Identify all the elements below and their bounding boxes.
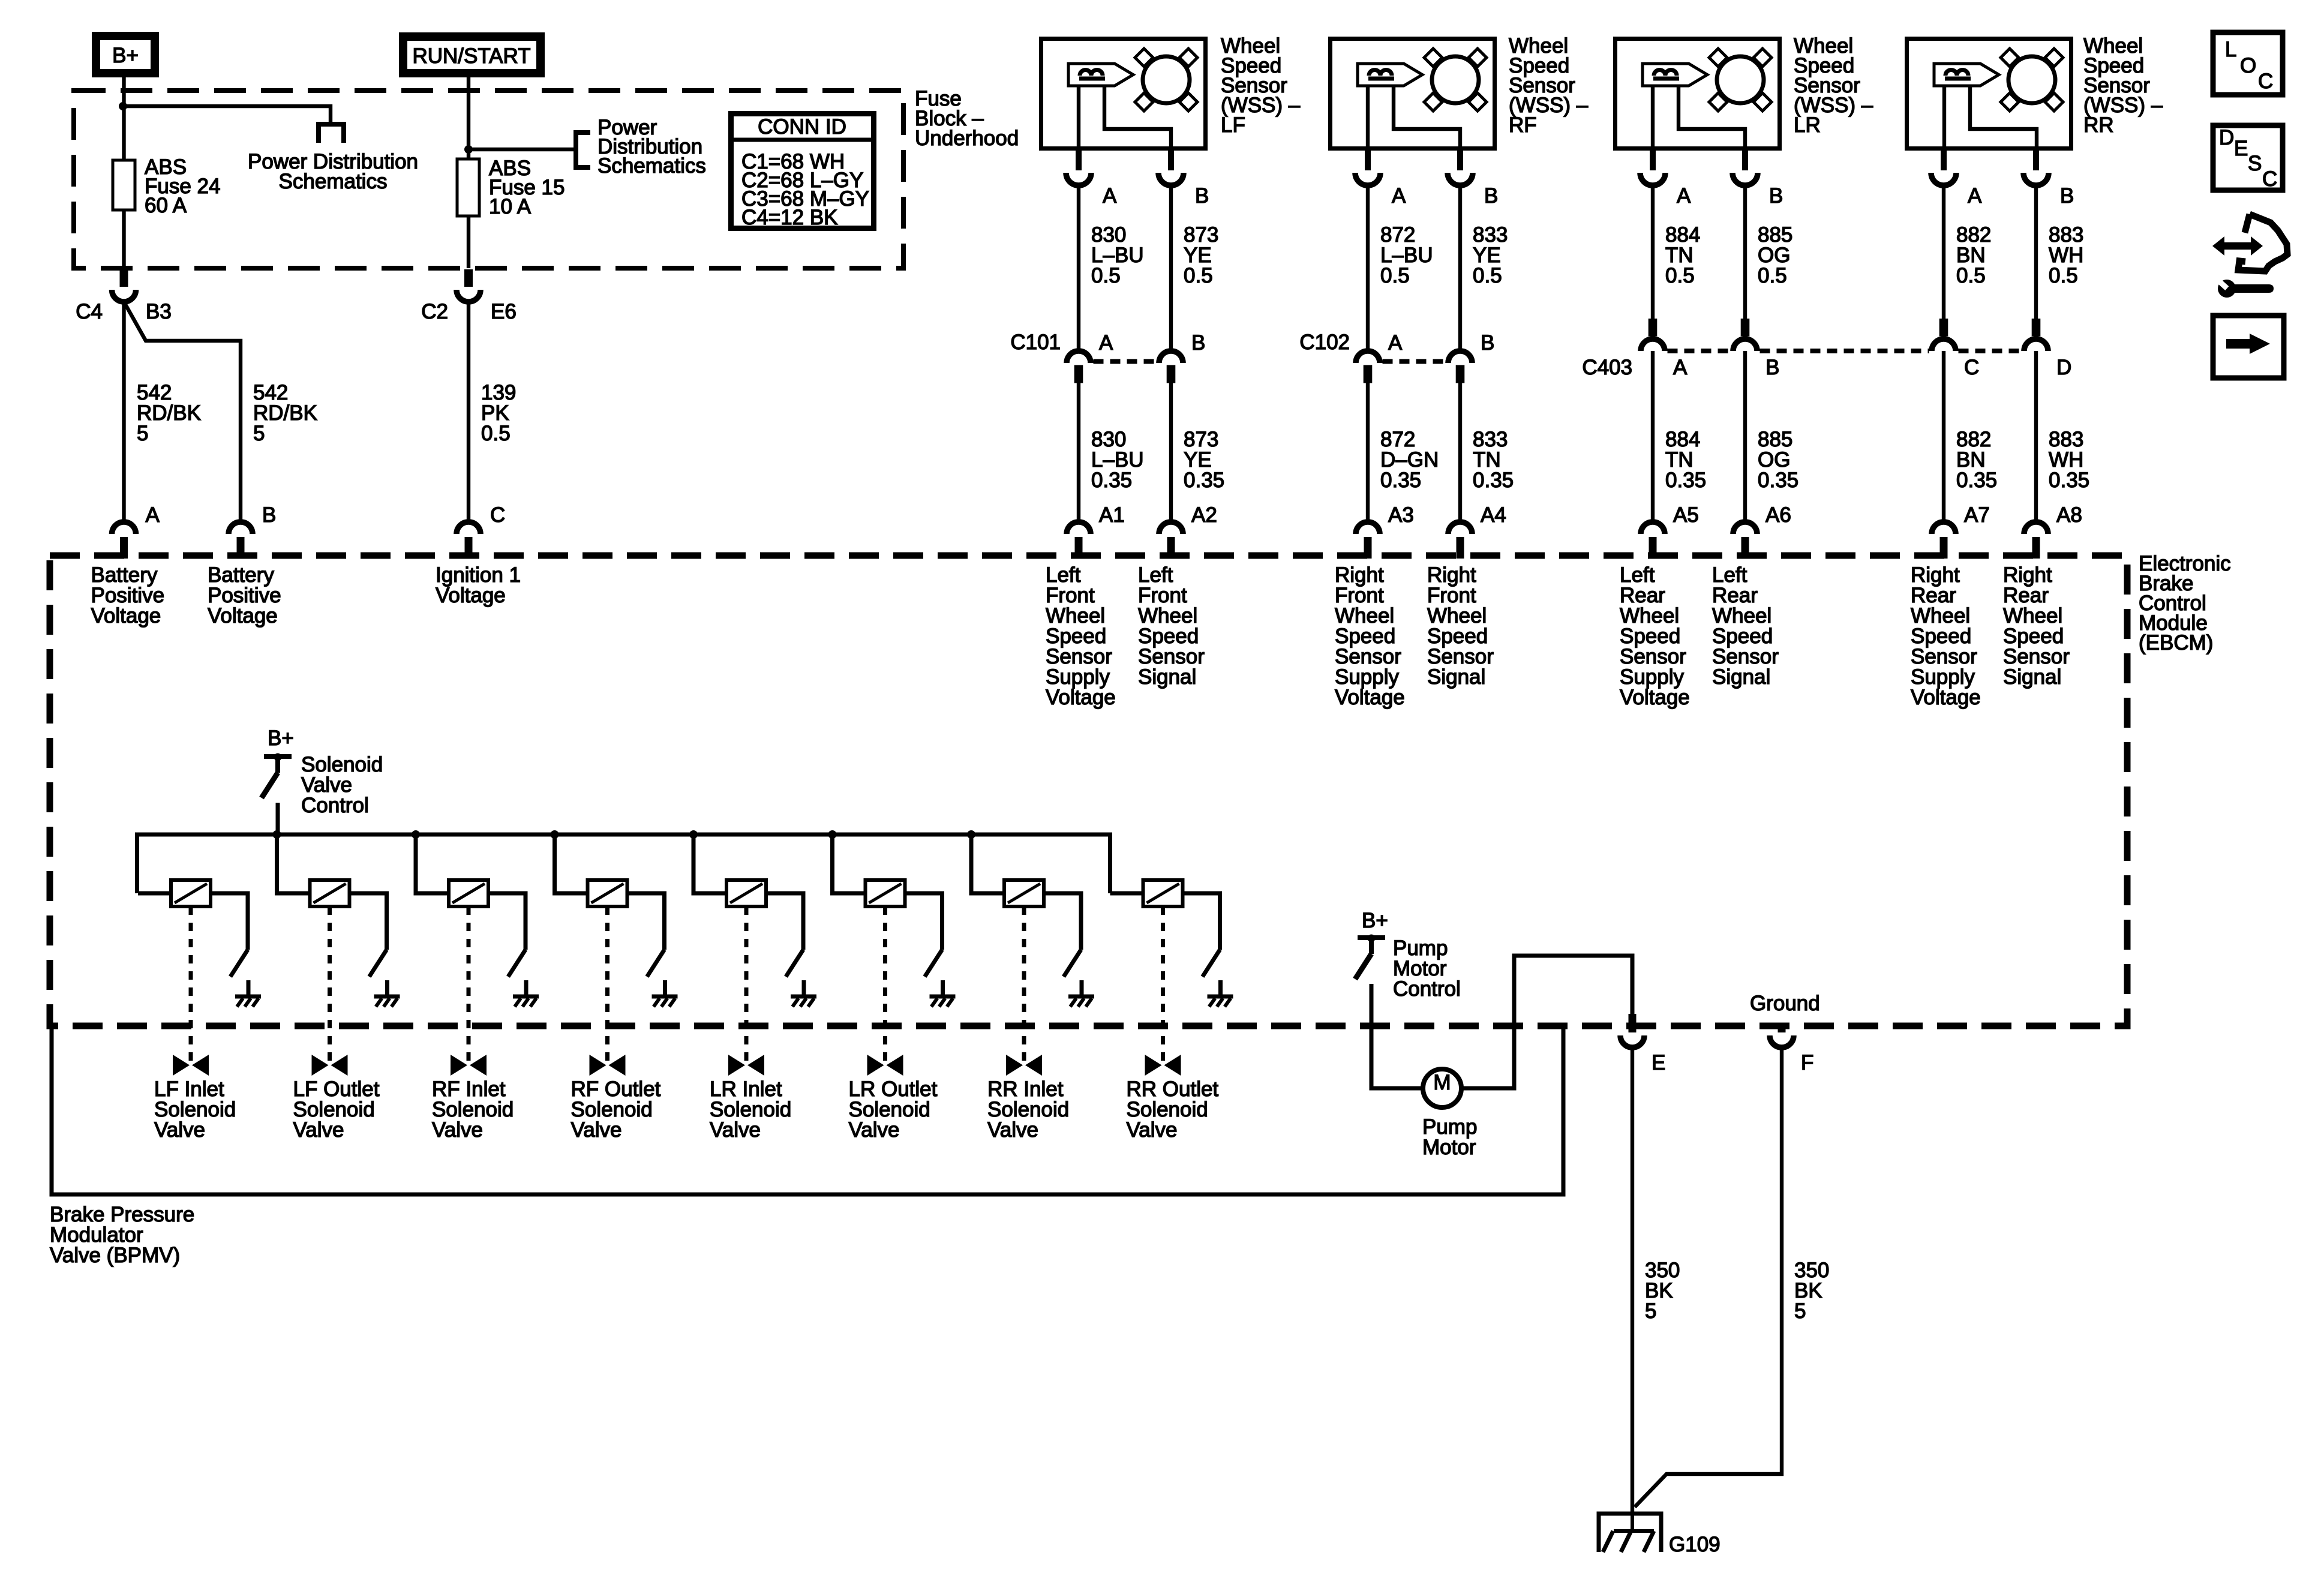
- switch driver RR Inlet: [1064, 950, 1081, 977]
- wire bus feed RF Outlet: [555, 834, 588, 893]
- solenoid coil RR Inlet: [1004, 880, 1044, 906]
- solenoid coil RF Outlet: [588, 880, 627, 906]
- svg-text:B: B: [1195, 184, 1209, 208]
- svg-text:D: D: [2056, 356, 2071, 379]
- pump motor M: [1423, 1069, 1461, 1107]
- switch solenoid valve control: [262, 754, 292, 798]
- power node RUN/START: [403, 37, 541, 73]
- svg-text:Valve: Valve: [154, 1118, 205, 1142]
- valve symbol RF Inlet solenoid valve: [451, 1055, 487, 1076]
- svg-text:Valve: Valve: [293, 1118, 344, 1142]
- svg-text:A5: A5: [1673, 503, 1699, 527]
- inline connector terminal D (C403): [2024, 319, 2071, 379]
- label wire 873 YE 0.35: [1184, 428, 1224, 492]
- label EBCM pin A1 function: [1046, 563, 1116, 709]
- svg-text:B: B: [1765, 356, 1779, 379]
- wire 139 PK to terminal C: [467, 302, 470, 520]
- wire 873 YE lower segment: [1169, 383, 1173, 520]
- switch driver LR Outlet: [925, 950, 942, 977]
- connector C4/B3: [76, 269, 172, 323]
- svg-text:Control: Control: [301, 794, 369, 817]
- svg-text:CONN ID: CONN ID: [758, 115, 846, 139]
- svg-text:C403: C403: [1582, 356, 1632, 379]
- EBCM terminal F: [1770, 1023, 1813, 1074]
- label Wheel Speed Sensor (WSS) - LF: [1221, 34, 1301, 137]
- label EBCM pin B function: [208, 563, 281, 628]
- label wire 139 PK 0.5: [481, 381, 516, 445]
- svg-text:B: B: [1769, 184, 1783, 208]
- EBCM terminal A7: [1932, 503, 1990, 559]
- WSS output terminal pin A (col A3): [1355, 151, 1406, 208]
- solenoid coil LF Inlet: [171, 880, 211, 906]
- svg-text:0.35: 0.35: [1473, 469, 1514, 492]
- wire branch to power distribution reference (right): [469, 148, 574, 151]
- switch driver LF Outlet: [370, 950, 387, 977]
- switch driver LF Inlet: [230, 950, 248, 977]
- dashed actuator link LF Inlet: [189, 906, 193, 1063]
- svg-text:B+: B+: [112, 44, 139, 67]
- label EBCM pin A2 function: [1138, 563, 1205, 689]
- svg-text:0.5: 0.5: [1758, 264, 1787, 287]
- ground (driver LR Inlet): [791, 980, 816, 1007]
- label wire 884 TN 0.5: [1665, 223, 1700, 287]
- label EBCM pin A function: [91, 563, 165, 628]
- power node B+: [96, 36, 155, 73]
- svg-text:0.35: 0.35: [1665, 469, 1706, 492]
- svg-text:A: A: [1099, 331, 1113, 355]
- label Wheel Speed Sensor (WSS) - RF: [1509, 34, 1589, 137]
- svg-text:60 A: 60 A: [145, 194, 187, 217]
- EBCM terminal A2: [1159, 503, 1217, 559]
- label RR Inlet Solenoid Valve: [987, 1077, 1069, 1142]
- inline connector terminal B: [1159, 331, 1205, 383]
- valve symbol LF Outlet solenoid valve: [312, 1055, 348, 1076]
- ground (driver LF Outlet): [374, 980, 400, 1007]
- wire coil RF Inlet to switch: [488, 893, 526, 950]
- label EBCM pin A4 function: [1427, 563, 1494, 689]
- svg-text:A1: A1: [1099, 503, 1125, 527]
- svg-text:A: A: [1392, 184, 1406, 208]
- label wire 883 WH 0.5: [2049, 223, 2083, 287]
- label Wheel Speed Sensor (WSS) - RR: [2083, 34, 2163, 137]
- dashed actuator link RR Inlet: [1022, 906, 1026, 1063]
- label Power Distribution Schematics (left): [248, 150, 418, 193]
- switch driver RF Inlet: [508, 950, 526, 977]
- svg-text:0.5: 0.5: [1380, 264, 1410, 287]
- node junction bus feed RR Inlet: [967, 830, 975, 839]
- svg-text:B+: B+: [1362, 909, 1388, 932]
- wire coil LR Outlet to switch: [905, 893, 942, 950]
- wire bus feed LF Inlet: [138, 891, 171, 896]
- icon forward arrow box: [2213, 316, 2284, 378]
- solenoid coil LR Outlet: [866, 880, 905, 906]
- WSS output terminal pin B (col A8): [2023, 151, 2074, 208]
- svg-text:5: 5: [137, 422, 148, 445]
- label wire 830 L–BU 0.5: [1091, 223, 1144, 287]
- wire 830 L–BU upper segment: [1077, 185, 1080, 349]
- svg-text:A8: A8: [2056, 503, 2082, 527]
- wheel speed sensor WSS LF box: [1041, 39, 1206, 149]
- wire 885 OG lower segment: [1743, 351, 1747, 520]
- wire 884 TN lower segment: [1651, 351, 1655, 520]
- label EBCM pin A7 function: [1911, 563, 1981, 709]
- wire solenoid valve control to bus: [276, 803, 280, 834]
- EBCM terminal A: [112, 503, 160, 559]
- svg-text:Valve (BPMV): Valve (BPMV): [50, 1244, 180, 1267]
- switch driver RF Outlet: [647, 950, 665, 977]
- BPMV solid box: [52, 1026, 1563, 1194]
- valve symbol RR Outlet solenoid valve: [1145, 1055, 1181, 1076]
- wire coil RF Outlet to switch: [627, 893, 665, 950]
- svg-text:0.5: 0.5: [2049, 264, 2078, 287]
- label wire 885 OG 0.5: [1758, 223, 1792, 287]
- svg-text:D: D: [2219, 126, 2234, 149]
- svg-text:Signal: Signal: [2003, 665, 2061, 689]
- label Ground: [1750, 992, 1820, 1015]
- svg-text:Schematics: Schematics: [279, 170, 388, 193]
- solenoid coil RR Outlet: [1143, 880, 1183, 906]
- connector C2/E6: [421, 269, 517, 323]
- wire B+ to ABS Fuse 24: [122, 73, 125, 268]
- svg-text:C102: C102: [1299, 331, 1350, 354]
- fuse ABS Fuse 15 10A: [457, 157, 565, 218]
- svg-text:S: S: [2248, 152, 2262, 175]
- wire solenoid supply bus: [137, 834, 1110, 893]
- dashed actuator link RF Inlet: [467, 906, 471, 1063]
- svg-text:Voltage: Voltage: [436, 584, 506, 607]
- label wire 873 YE 0.5: [1184, 223, 1218, 287]
- WSS output terminal pin A (col A5): [1640, 151, 1691, 208]
- connector C101: [1010, 331, 1156, 362]
- valve symbol RR Inlet solenoid valve: [1006, 1055, 1042, 1076]
- wire 883 WH upper segment: [2034, 185, 2038, 319]
- valve symbol LR Outlet solenoid valve: [867, 1055, 903, 1076]
- EBCM dashed box: [50, 556, 2127, 1026]
- svg-text:F: F: [1801, 1051, 1813, 1074]
- wire coil LR Inlet to switch: [766, 893, 803, 950]
- svg-text:Voltage: Voltage: [1046, 686, 1116, 709]
- svg-text:A: A: [1968, 184, 1982, 208]
- wheel speed sensor WSS RR box: [1907, 39, 2071, 149]
- svg-text:0.5: 0.5: [1091, 264, 1121, 287]
- EBCM terminal E: [1620, 1014, 1665, 1074]
- label wire 833 YE 0.5: [1473, 223, 1508, 287]
- valve symbol LF Inlet solenoid valve: [173, 1055, 209, 1076]
- power node B+ (solenoid valve control): [268, 727, 294, 750]
- label wire 542 RD/BK 5 (B): [253, 381, 317, 445]
- label wire 350 BK 5 (F): [1794, 1259, 1829, 1323]
- svg-text:Valve: Valve: [432, 1118, 483, 1142]
- node junction bus feed LR Inlet: [689, 830, 698, 839]
- inline connector terminal B (C403): [1733, 319, 1779, 379]
- wire coil LF Inlet to switch: [211, 893, 248, 950]
- valve symbol LR Inlet solenoid valve: [728, 1055, 764, 1076]
- label EBCM pin A3 function: [1335, 563, 1405, 709]
- wire 833 YE upper segment: [1458, 185, 1462, 349]
- connector C403: [1582, 351, 2021, 379]
- svg-text:B: B: [1484, 184, 1498, 208]
- wire 885 OG upper segment: [1743, 185, 1747, 319]
- ground (driver RF Inlet): [513, 980, 539, 1007]
- svg-text:0.5: 0.5: [1956, 264, 1986, 287]
- EBCM terminal A5: [1641, 503, 1699, 559]
- svg-text:5: 5: [1794, 1299, 1806, 1323]
- svg-text:B: B: [2060, 184, 2074, 208]
- EBCM terminal C: [457, 503, 505, 559]
- ground (driver RR Inlet): [1068, 980, 1094, 1007]
- wire coil LF Outlet to switch: [350, 893, 387, 950]
- svg-text:0.35: 0.35: [1184, 469, 1224, 492]
- node junction B+ branch: [119, 102, 127, 110]
- label wire 883 WH 0.35: [2049, 428, 2089, 492]
- label Fuse Block Underhood: [915, 87, 1019, 150]
- svg-text:5: 5: [1645, 1299, 1656, 1323]
- svg-text:C: C: [2258, 70, 2273, 93]
- power node B+ (pump motor control): [1362, 909, 1388, 932]
- svg-text:Signal: Signal: [1138, 665, 1196, 689]
- svg-text:0.35: 0.35: [1091, 469, 1132, 492]
- wire pump motor control to motor: [1371, 984, 1423, 1088]
- svg-text:Voltage: Voltage: [1620, 686, 1690, 709]
- svg-text:Valve: Valve: [849, 1118, 900, 1142]
- wire bus feed LR Inlet: [693, 834, 726, 893]
- svg-text:A: A: [146, 503, 160, 527]
- label LR Inlet Solenoid Valve: [710, 1077, 791, 1142]
- label RF Inlet Solenoid Valve: [432, 1077, 514, 1142]
- wire RUN/START to ABS Fuse 15: [467, 73, 470, 268]
- WSS output terminal pin A (col A1): [1066, 151, 1117, 208]
- ground G109: [1599, 1514, 1721, 1556]
- inline connector terminal A: [1356, 331, 1403, 383]
- label RR Outlet Solenoid Valve: [1127, 1077, 1219, 1142]
- label EBCM pin A6 function: [1712, 563, 1779, 689]
- svg-text:G109: G109: [1669, 1533, 1721, 1556]
- ground (driver RF Outlet): [652, 980, 678, 1007]
- svg-text:A7: A7: [1964, 503, 1990, 527]
- node junction bus feed RF Outlet: [551, 830, 559, 839]
- svg-text:Signal: Signal: [1712, 665, 1770, 689]
- svg-text:C: C: [1964, 356, 1979, 379]
- label EBCM pin A5 function: [1620, 563, 1690, 709]
- label wire 833 TN 0.35: [1473, 428, 1514, 492]
- label wire 885 OG 0.35: [1758, 428, 1798, 492]
- label wire 542 RD/BK 5 (A): [137, 381, 201, 445]
- EBCM terminal A3: [1356, 503, 1414, 559]
- svg-text:Valve: Valve: [571, 1118, 622, 1142]
- icon service tools (arrows and wrench): [2212, 214, 2287, 298]
- svg-text:Control: Control: [1393, 977, 1461, 1001]
- wire 872 D–GN lower segment: [1366, 383, 1370, 520]
- svg-text:(EBCM): (EBCM): [2139, 631, 2213, 655]
- ground (driver LR Outlet): [930, 980, 956, 1007]
- svg-text:0.5: 0.5: [1473, 264, 1502, 287]
- icon LOC box: [2213, 32, 2283, 95]
- node junction bus feed LF Outlet: [273, 830, 281, 839]
- svg-text:Motor: Motor: [1422, 1136, 1476, 1159]
- svg-text:A3: A3: [1388, 503, 1414, 527]
- label Brake Pressure Modulator Valve (BPMV): [50, 1203, 194, 1267]
- off-page bracket power distribution: [316, 124, 346, 143]
- wire 830 L–BU lower segment: [1077, 383, 1080, 520]
- wire bus feed RR Outlet: [1110, 891, 1143, 896]
- label wire 350 BK 5 (E): [1645, 1259, 1680, 1323]
- svg-text:RR: RR: [2083, 113, 2114, 137]
- svg-text:C101: C101: [1010, 331, 1061, 354]
- label Solenoid Valve Control: [301, 753, 383, 817]
- switch driver LR Inlet: [786, 950, 803, 977]
- label LR Outlet Solenoid Valve: [849, 1077, 938, 1142]
- fuse block underhood dashed box: [74, 91, 903, 268]
- switch driver RR Outlet: [1203, 950, 1220, 977]
- solenoid coil LF Outlet: [310, 880, 350, 906]
- wire coil RR Inlet to switch: [1044, 893, 1081, 950]
- WSS output terminal pin A (col A7): [1931, 151, 1982, 208]
- wheel speed sensor WSS LR box: [1616, 39, 1780, 149]
- svg-text:C: C: [2262, 167, 2277, 191]
- ground (driver RR Outlet): [1208, 980, 1233, 1007]
- wire 350 BK (F) to G109: [1635, 1047, 1782, 1507]
- wire bus feed LR Outlet: [833, 834, 866, 893]
- svg-text:Voltage: Voltage: [1335, 686, 1405, 709]
- svg-text:Underhood: Underhood: [915, 127, 1019, 150]
- wire 542 RD/BK to terminal A: [122, 302, 125, 520]
- svg-text:A6: A6: [1765, 503, 1791, 527]
- solenoid coil RF Inlet: [449, 880, 488, 906]
- svg-text:C4=12 BK: C4=12 BK: [741, 206, 838, 229]
- svg-text:Voltage: Voltage: [1911, 686, 1981, 709]
- svg-text:Valve: Valve: [1127, 1118, 1178, 1142]
- svg-text:E6: E6: [491, 300, 517, 323]
- off-page bracket power distribution (right): [576, 130, 590, 170]
- switch pump motor control: [1355, 935, 1385, 980]
- label Electronic Brake Control Module (EBCM): [2139, 552, 2231, 655]
- svg-text:A4: A4: [1481, 503, 1506, 527]
- svg-text:E: E: [1652, 1051, 1665, 1074]
- wire pump motor to terminal E: [1461, 956, 1632, 1088]
- wire 884 TN upper segment: [1651, 185, 1655, 319]
- label LF Inlet Solenoid Valve: [154, 1077, 236, 1142]
- svg-text:0.35: 0.35: [1380, 469, 1421, 492]
- svg-text:0.5: 0.5: [481, 422, 511, 445]
- svg-text:Voltage: Voltage: [91, 604, 161, 628]
- svg-text:A: A: [1388, 331, 1403, 355]
- ground (driver LF Inlet): [235, 980, 261, 1007]
- EBCM terminal A4: [1448, 503, 1506, 559]
- dashed actuator link LR Inlet: [744, 906, 749, 1063]
- svg-text:0.5: 0.5: [1665, 264, 1695, 287]
- svg-text:B+: B+: [268, 727, 294, 750]
- svg-text:RUN/START: RUN/START: [412, 44, 530, 68]
- dashed actuator link RR Outlet: [1161, 906, 1165, 1063]
- label Wheel Speed Sensor (WSS) - LR: [1794, 34, 1873, 137]
- wire 882 BN upper segment: [1942, 185, 1945, 319]
- wire 350 BK (E) to G109: [1631, 1047, 1634, 1515]
- inline connector terminal A: [1067, 331, 1113, 383]
- svg-text:C4: C4: [76, 300, 103, 323]
- svg-text:0.35: 0.35: [1956, 469, 1997, 492]
- svg-text:Valve: Valve: [987, 1118, 1038, 1142]
- wire 833 TN lower segment: [1458, 383, 1462, 520]
- svg-text:Signal: Signal: [1427, 665, 1485, 689]
- label wire 830 L–BU 0.35: [1091, 428, 1144, 492]
- EBCM terminal B: [229, 503, 276, 559]
- inline connector terminal A (C403): [1641, 319, 1688, 379]
- wire bus feed LF Outlet: [277, 834, 310, 893]
- dashed actuator link RF Outlet: [605, 906, 609, 1063]
- valve symbol RF Outlet solenoid valve: [590, 1055, 626, 1076]
- svg-text:A: A: [1677, 184, 1691, 208]
- wire 882 BN lower segment: [1942, 351, 1945, 520]
- svg-text:B: B: [262, 503, 276, 527]
- svg-text:Schematics: Schematics: [597, 154, 706, 178]
- wire 872 L–BU upper segment: [1366, 185, 1370, 349]
- svg-text:M: M: [1433, 1071, 1451, 1094]
- WSS output terminal pin B (col A2): [1158, 151, 1209, 208]
- wire bus feed RF Inlet: [416, 834, 449, 893]
- table CONN ID: [728, 114, 876, 230]
- inline connector terminal C (C403): [1932, 319, 1979, 379]
- label EBCM pin C function: [436, 563, 521, 607]
- label Power Distribution Schematics (right): [597, 116, 706, 178]
- EBCM terminal A6: [1733, 503, 1791, 559]
- svg-text:LR: LR: [1794, 113, 1821, 137]
- wire 883 WH lower segment: [2034, 351, 2038, 520]
- label Pump Motor Control: [1393, 936, 1461, 1001]
- connector C102: [1299, 331, 1445, 362]
- solenoid coil LR Inlet: [726, 880, 766, 906]
- label wire 882 BN 0.5: [1956, 223, 1991, 287]
- svg-text:0.5: 0.5: [1184, 264, 1213, 287]
- EBCM terminal A1: [1067, 503, 1125, 559]
- svg-text:0.35: 0.35: [2049, 469, 2089, 492]
- wire 542 RD/BK to terminal B: [124, 302, 241, 520]
- svg-text:O: O: [2240, 54, 2256, 77]
- wire coil RR Outlet to switch: [1183, 893, 1220, 950]
- svg-text:Voltage: Voltage: [208, 604, 278, 628]
- fuse ABS Fuse 24 60A: [113, 155, 220, 217]
- svg-text:10 A: 10 A: [489, 195, 532, 218]
- svg-text:A: A: [1103, 184, 1117, 208]
- label wire 884 TN 0.35: [1665, 428, 1706, 492]
- node junction bus feed LR Outlet: [828, 830, 837, 839]
- label RF Outlet Solenoid Valve: [571, 1077, 661, 1142]
- label wire 882 BN 0.35: [1956, 428, 1997, 492]
- svg-text:A2: A2: [1191, 503, 1217, 527]
- svg-text:Ground: Ground: [1750, 992, 1820, 1015]
- svg-text:LF: LF: [1221, 113, 1245, 137]
- wire 873 YE upper segment: [1169, 185, 1173, 349]
- label LF Outlet Solenoid Valve: [293, 1077, 380, 1142]
- svg-text:5: 5: [253, 422, 265, 445]
- wheel speed sensor WSS RF box: [1331, 39, 1495, 149]
- icon DESC box: [2213, 125, 2283, 191]
- label wire 872 D–GN 0.35: [1380, 428, 1439, 492]
- svg-text:E: E: [2234, 137, 2248, 160]
- svg-text:L: L: [2225, 38, 2236, 61]
- EBCM terminal A8: [2024, 503, 2082, 559]
- svg-text:A: A: [1673, 356, 1688, 379]
- svg-text:RF: RF: [1509, 113, 1537, 137]
- svg-text:B: B: [1191, 331, 1205, 355]
- dashed actuator link LF Outlet: [328, 906, 332, 1063]
- svg-text:C2: C2: [421, 300, 448, 323]
- svg-text:B3: B3: [146, 300, 172, 323]
- svg-text:Valve: Valve: [710, 1118, 761, 1142]
- wire branch to power distribution reference: [123, 106, 331, 123]
- svg-text:B: B: [1481, 331, 1494, 355]
- svg-text:0.35: 0.35: [1758, 469, 1798, 492]
- node junction ignition branch: [464, 145, 473, 154]
